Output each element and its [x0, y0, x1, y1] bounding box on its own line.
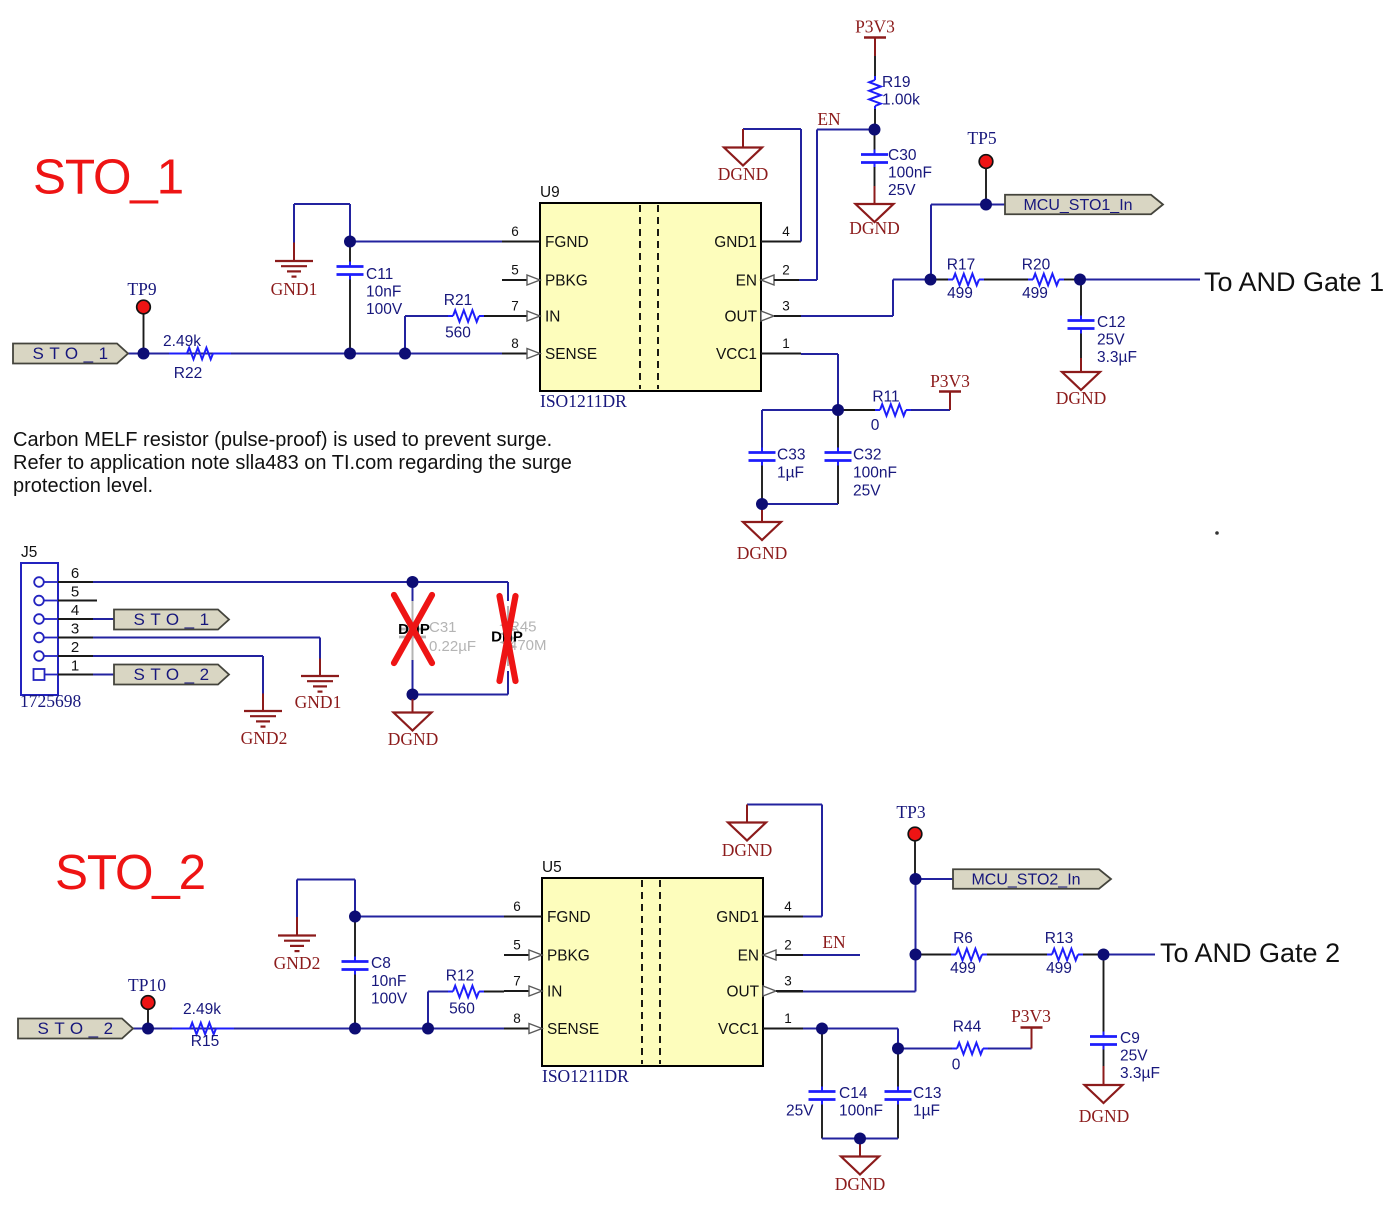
- svg-text:C33: C33: [777, 447, 805, 464]
- svg-text:2.49k: 2.49k: [183, 1001, 221, 1018]
- svg-text:protection level.: protection level.: [13, 475, 153, 497]
- svg-text:Refer to application note slla: Refer to application note slla483 on TI.…: [13, 452, 572, 474]
- svg-text:25V: 25V: [888, 182, 916, 199]
- svg-text:2: 2: [71, 639, 79, 656]
- svg-text:0: 0: [952, 1057, 961, 1074]
- svg-text:TP3: TP3: [896, 802, 925, 822]
- svg-text:8: 8: [513, 1011, 521, 1026]
- svg-text:R11: R11: [872, 389, 899, 406]
- svg-text:TP9: TP9: [127, 279, 156, 299]
- svg-text:PBKG: PBKG: [547, 948, 590, 965]
- svg-text:EN: EN: [817, 109, 841, 129]
- svg-text:10nF: 10nF: [371, 973, 406, 990]
- svg-text:499: 499: [1022, 285, 1048, 302]
- svg-text:499: 499: [950, 960, 976, 977]
- svg-text:R44: R44: [953, 1019, 982, 1036]
- svg-text:C32: C32: [853, 447, 881, 464]
- svg-text:P3V3: P3V3: [855, 17, 895, 37]
- svg-text:100nF: 100nF: [839, 1103, 883, 1120]
- svg-text:3: 3: [782, 299, 790, 314]
- svg-text:4: 4: [782, 224, 790, 239]
- svg-text:R19: R19: [882, 74, 910, 91]
- svg-text:To AND Gate 2: To AND Gate 2: [1160, 938, 1340, 968]
- svg-text:2.49k: 2.49k: [163, 333, 201, 350]
- svg-text:100V: 100V: [371, 991, 408, 1008]
- svg-text:DGND: DGND: [718, 164, 769, 184]
- svg-text:P3V3: P3V3: [930, 371, 970, 391]
- svg-text:GND1: GND1: [271, 279, 318, 299]
- svg-text:R6: R6: [953, 930, 973, 947]
- svg-text:C31: C31: [429, 619, 457, 636]
- svg-text:IN: IN: [547, 984, 562, 1001]
- svg-text:EN: EN: [822, 932, 846, 952]
- svg-text:0.22µF: 0.22µF: [429, 638, 476, 655]
- svg-text:0: 0: [871, 417, 880, 434]
- svg-text:DGND: DGND: [849, 218, 900, 238]
- svg-text:25V: 25V: [1120, 1048, 1148, 1065]
- svg-text:MCU_STO1_In: MCU_STO1_In: [1023, 197, 1132, 214]
- svg-text:R17: R17: [947, 257, 975, 274]
- svg-text:OUT: OUT: [727, 984, 760, 1001]
- svg-text:DGND: DGND: [737, 543, 788, 563]
- svg-text:C14: C14: [839, 1085, 868, 1102]
- svg-text:TP10: TP10: [128, 975, 166, 995]
- svg-text:C13: C13: [913, 1085, 941, 1102]
- svg-text:P3V3: P3V3: [1011, 1006, 1051, 1026]
- svg-text:J5: J5: [21, 544, 37, 561]
- svg-text:EN: EN: [736, 273, 757, 290]
- svg-text:R15: R15: [191, 1033, 219, 1050]
- svg-text:ISO1211DR: ISO1211DR: [542, 1066, 629, 1086]
- svg-text:GND1: GND1: [714, 234, 757, 251]
- svg-text:IN: IN: [545, 309, 560, 326]
- svg-text:560: 560: [449, 1001, 475, 1018]
- svg-text:C8: C8: [371, 955, 391, 972]
- svg-text:1725698: 1725698: [20, 691, 82, 711]
- svg-text:100nF: 100nF: [853, 465, 897, 482]
- svg-text:EN: EN: [738, 948, 759, 965]
- svg-text:100V: 100V: [366, 301, 403, 318]
- svg-text:5: 5: [513, 938, 521, 953]
- svg-text:DGND: DGND: [388, 729, 439, 749]
- svg-text:C11: C11: [366, 266, 393, 283]
- svg-text:STO_2: STO_2: [38, 1019, 119, 1038]
- svg-text:C9: C9: [1120, 1030, 1140, 1047]
- svg-text:PBKG: PBKG: [545, 273, 588, 290]
- svg-text:6: 6: [513, 899, 521, 914]
- svg-text:R13: R13: [1045, 930, 1073, 947]
- svg-text:3: 3: [71, 621, 79, 638]
- svg-text:25V: 25V: [853, 483, 881, 500]
- svg-text:DGND: DGND: [835, 1174, 886, 1194]
- svg-text:1: 1: [782, 336, 790, 351]
- svg-text:6: 6: [71, 565, 79, 582]
- svg-text:GND2: GND2: [274, 953, 321, 973]
- svg-text:FGND: FGND: [545, 234, 589, 251]
- svg-text:R12: R12: [446, 968, 474, 985]
- svg-text:GND1: GND1: [716, 909, 759, 926]
- svg-text:3.3µF: 3.3µF: [1097, 349, 1137, 366]
- svg-text:DGND: DGND: [1079, 1106, 1130, 1126]
- svg-text:ISO1211DR: ISO1211DR: [540, 391, 627, 411]
- svg-text:MCU_STO2_In: MCU_STO2_In: [971, 872, 1080, 889]
- svg-text:3.3µF: 3.3µF: [1120, 1065, 1160, 1082]
- svg-text:STO_1: STO_1: [33, 150, 183, 205]
- svg-text:OUT: OUT: [725, 309, 758, 326]
- svg-text:To AND Gate 1: To AND Gate 1: [1204, 267, 1384, 297]
- svg-text:4: 4: [784, 899, 792, 914]
- svg-text:SENSE: SENSE: [545, 346, 597, 363]
- svg-text:GND2: GND2: [241, 728, 288, 748]
- svg-text:R22: R22: [174, 365, 202, 382]
- svg-text:R21: R21: [444, 292, 472, 309]
- svg-text:5: 5: [511, 263, 519, 278]
- svg-text:5: 5: [71, 584, 79, 601]
- svg-text:FGND: FGND: [547, 909, 591, 926]
- svg-text:C12: C12: [1097, 314, 1125, 331]
- svg-text:8: 8: [511, 336, 519, 351]
- svg-text:1: 1: [784, 1011, 792, 1026]
- svg-text:GND1: GND1: [295, 692, 342, 712]
- svg-text:STO_2: STO_2: [55, 845, 205, 900]
- svg-text:STO_1: STO_1: [33, 344, 114, 363]
- svg-text:6: 6: [511, 224, 519, 239]
- svg-text:SENSE: SENSE: [547, 1021, 599, 1038]
- svg-text:4: 4: [71, 602, 79, 619]
- svg-text:C30: C30: [888, 147, 917, 164]
- svg-text:DGND: DGND: [722, 840, 773, 860]
- svg-text:1µF: 1µF: [777, 465, 804, 482]
- svg-text:100nF: 100nF: [888, 165, 932, 182]
- svg-text:DGND: DGND: [1056, 388, 1107, 408]
- svg-text:Carbon MELF resistor (pulse-pr: Carbon MELF resistor (pulse-proof) is us…: [13, 429, 552, 451]
- svg-text:2: 2: [782, 263, 790, 278]
- svg-text:25V: 25V: [1097, 332, 1125, 349]
- svg-text:1µF: 1µF: [913, 1103, 940, 1120]
- svg-text:U9: U9: [540, 184, 560, 201]
- svg-text:7: 7: [513, 974, 521, 989]
- svg-text:3: 3: [784, 974, 792, 989]
- svg-text:7: 7: [511, 299, 519, 314]
- svg-text:STO_2: STO_2: [134, 665, 215, 684]
- svg-text:R20: R20: [1022, 257, 1051, 274]
- svg-text:TP5: TP5: [967, 128, 996, 148]
- svg-text:VCC1: VCC1: [716, 346, 757, 363]
- svg-text:560: 560: [445, 325, 471, 342]
- svg-text:10nF: 10nF: [366, 284, 401, 301]
- svg-text:U5: U5: [542, 859, 562, 876]
- svg-text:STO_1: STO_1: [134, 610, 215, 629]
- svg-text:1.00k: 1.00k: [882, 92, 920, 109]
- svg-text:25V: 25V: [786, 1103, 814, 1120]
- svg-text:2: 2: [784, 938, 792, 953]
- svg-text:1: 1: [71, 658, 79, 675]
- svg-text:VCC1: VCC1: [718, 1021, 759, 1038]
- svg-text:499: 499: [947, 285, 973, 302]
- svg-text:499: 499: [1046, 960, 1072, 977]
